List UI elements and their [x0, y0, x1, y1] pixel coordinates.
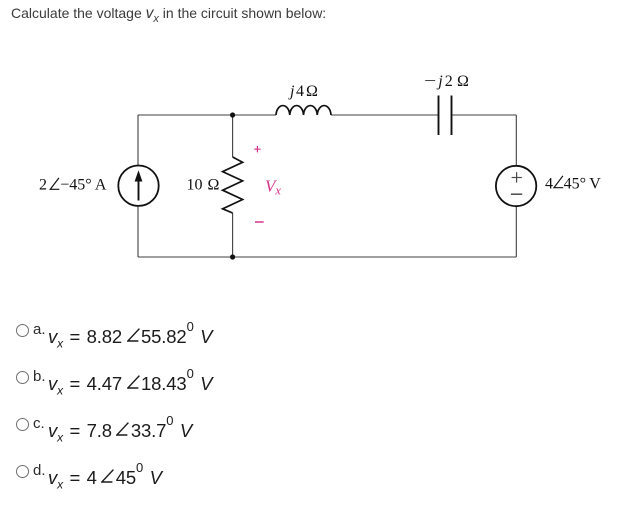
- svg-text:Ω: Ω: [208, 177, 220, 194]
- svg-text:45° V: 45° V: [564, 176, 602, 193]
- svg-text:Ω: Ω: [306, 83, 318, 100]
- svg-text:2: 2: [445, 73, 453, 90]
- svg-text:−: −: [424, 73, 436, 90]
- svg-text:Ω: Ω: [457, 73, 469, 90]
- svg-text:10: 10: [187, 177, 203, 194]
- svg-text:4: 4: [545, 176, 553, 193]
- svg-text:j: j: [288, 83, 295, 100]
- svg-text:4: 4: [296, 83, 304, 100]
- svg-text:Vx: Vx: [265, 177, 281, 198]
- svg-text:j: j: [436, 73, 443, 90]
- svg-text:2: 2: [39, 177, 47, 194]
- svg-text:−45° A: −45° A: [60, 177, 107, 194]
